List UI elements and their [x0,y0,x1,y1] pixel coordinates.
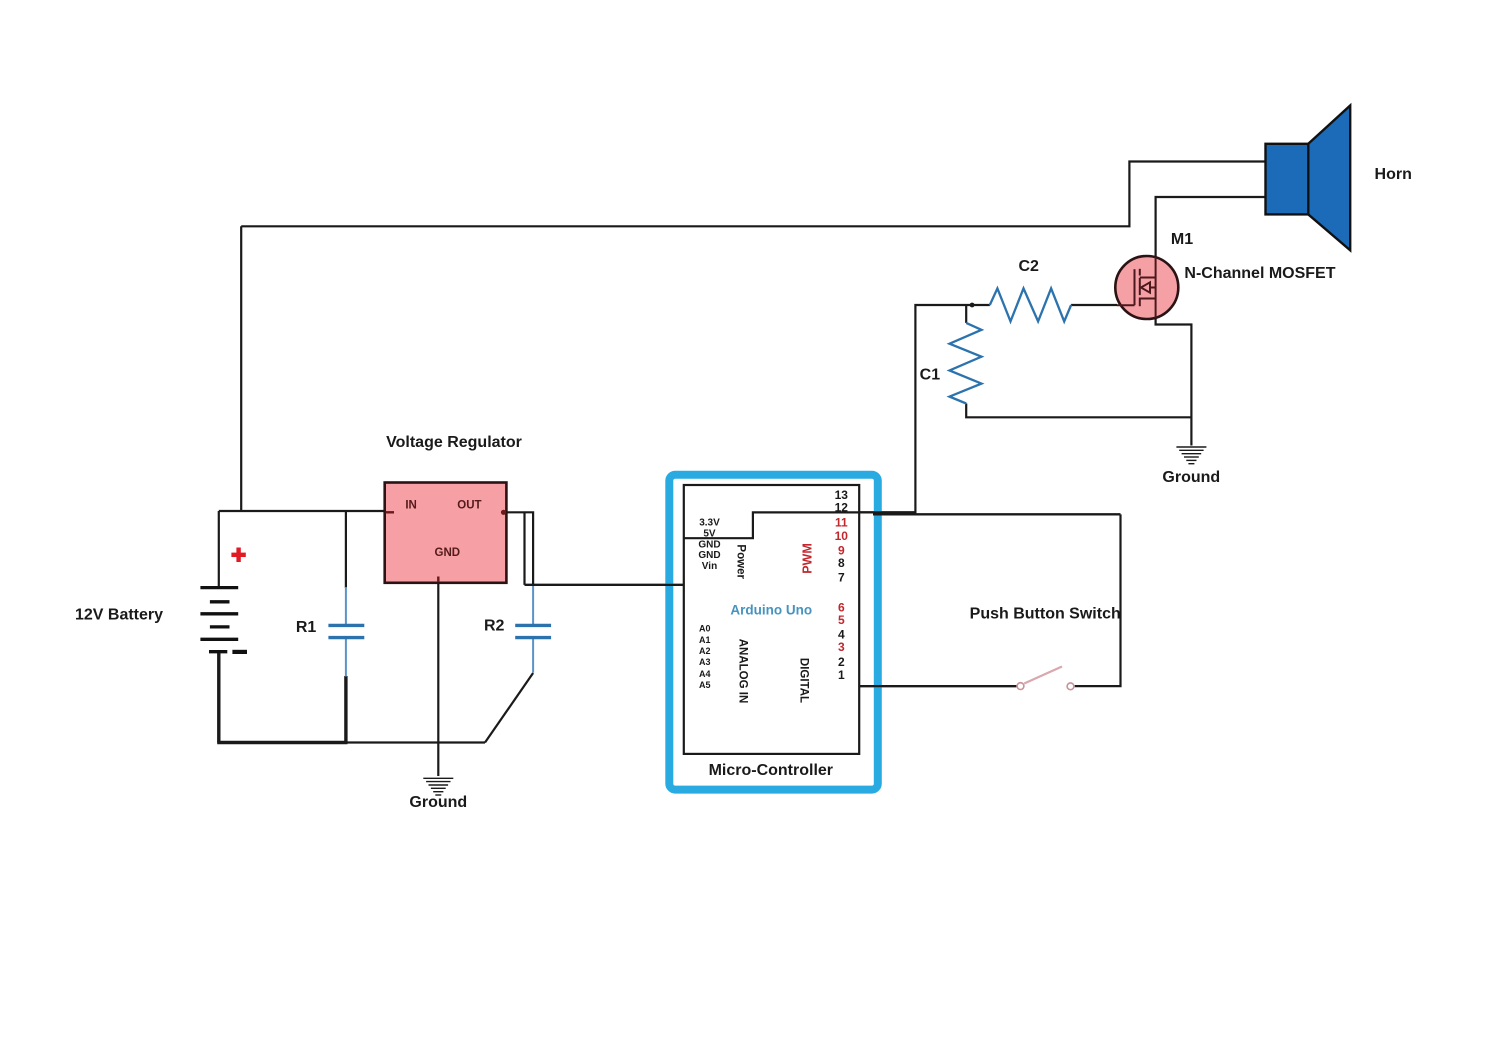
svg-text:ANALOG IN: ANALOG IN [736,639,748,704]
ground symbol below regulator [423,778,453,795]
wire bottom rail right part [346,741,485,743]
transistor M1 N-Channel MOSFET [1115,256,1178,319]
voltage regulator U1 [385,483,507,583]
svg-text:C1: C1 [920,367,941,384]
wire diagonal to R2 [485,673,533,743]
wire bottom ground rail [217,741,347,744]
svg-text:A2: A2 [699,646,711,656]
svg-text:M1: M1 [1171,231,1193,248]
wire top rail to horn [241,162,1266,227]
svg-text:5: 5 [838,613,845,627]
svg-text:Push Button Switch: Push Button Switch [970,605,1121,622]
wire R1 top stub [345,511,347,588]
node junction dot at C1/C2 [970,303,975,308]
svg-text:8: 8 [838,556,845,570]
svg-text:12: 12 [835,500,849,514]
svg-text:C2: C2 [1018,258,1039,275]
wire C1 bottom stub [966,404,1191,418]
regulator pin OUT dot [501,510,506,515]
wire C1 top stub [965,305,967,323]
svg-text:R2: R2 [484,618,505,635]
ground symbol at MOSFET [1176,447,1206,464]
svg-text:Arduino Uno: Arduino Uno [730,603,812,618]
svg-text:A1: A1 [699,635,711,645]
regulator pin IN tick [386,511,395,513]
svg-text:OUT: OUT [457,499,481,511]
svg-text:1: 1 [838,668,845,682]
wire push button right lead riser [1075,514,1121,686]
capacitor R1 [328,587,364,677]
wire MOSFET source to ground [1156,318,1192,446]
svg-text:Voltage Regulator: Voltage Regulator [386,434,522,451]
svg-text:Ground: Ground [1162,469,1220,486]
wire R1 bottom stub [344,676,347,743]
svg-text:N-Channel MOSFET: N-Channel MOSFET [1184,265,1335,282]
svg-text:5V: 5V [703,529,716,540]
regulator pin GND tick [437,577,439,583]
wire MOSFET drain to horn bottom [1156,197,1267,258]
svg-text:GND: GND [698,550,720,561]
push button switch S1 [1017,667,1074,690]
svg-text:11: 11 [835,516,848,530]
wire pin11 step to push button riser [684,512,917,538]
svg-text:A5: A5 [699,680,711,690]
wire OUT to micro-controller Vin [525,584,684,586]
svg-text:12V Battery: 12V Battery [75,607,163,624]
svg-text:Power: Power [735,544,747,579]
svg-text:GND: GND [435,547,461,559]
svg-text:A3: A3 [699,657,711,667]
svg-text:PWM: PWM [801,543,815,574]
svg-text:3: 3 [838,640,845,654]
micro-controller chip body [684,485,859,754]
svg-text:Vin: Vin [702,561,717,572]
svg-text:IN: IN [405,500,417,512]
svg-text:Horn: Horn [1375,166,1412,183]
wire push button left lead [859,685,1016,687]
wire C2 right lead to gate [1071,304,1117,306]
svg-text:GND: GND [698,539,720,550]
svg-text:R1: R1 [296,619,317,636]
svg-text:Ground: Ground [409,794,467,811]
wire battery+ riser to top rail [240,226,242,511]
svg-text:7: 7 [838,570,845,584]
svg-text:DIGITAL: DIGITAL [798,658,810,703]
svg-text:2: 2 [838,655,845,669]
wire C1 riser [915,305,989,514]
svg-text:3.3V: 3.3V [699,518,720,529]
resistor C1 zigzag [950,323,982,404]
wire battery+ feed to regulator IN [219,510,386,512]
resistor C2 zigzag [990,288,1071,321]
redraw wires over chip [525,512,1121,686]
svg-text:A0: A0 [699,624,711,634]
horn speaker [1266,106,1351,251]
svg-text:10: 10 [835,529,849,543]
battery plus sign [231,548,245,563]
battery B1 12V [200,588,247,652]
capacitor R2 [515,586,551,673]
svg-text:A4: A4 [699,669,711,679]
wire battery positive lead [218,511,220,588]
wire battery negative lead [217,652,220,743]
wire regulator GND lead [437,581,439,776]
wire pin11 junction to push button riser [873,513,1121,515]
wire regulator OUT loop [504,512,533,585]
micro-controller cyan frame [669,475,878,790]
svg-text:Micro-Controller: Micro-Controller [709,762,833,779]
